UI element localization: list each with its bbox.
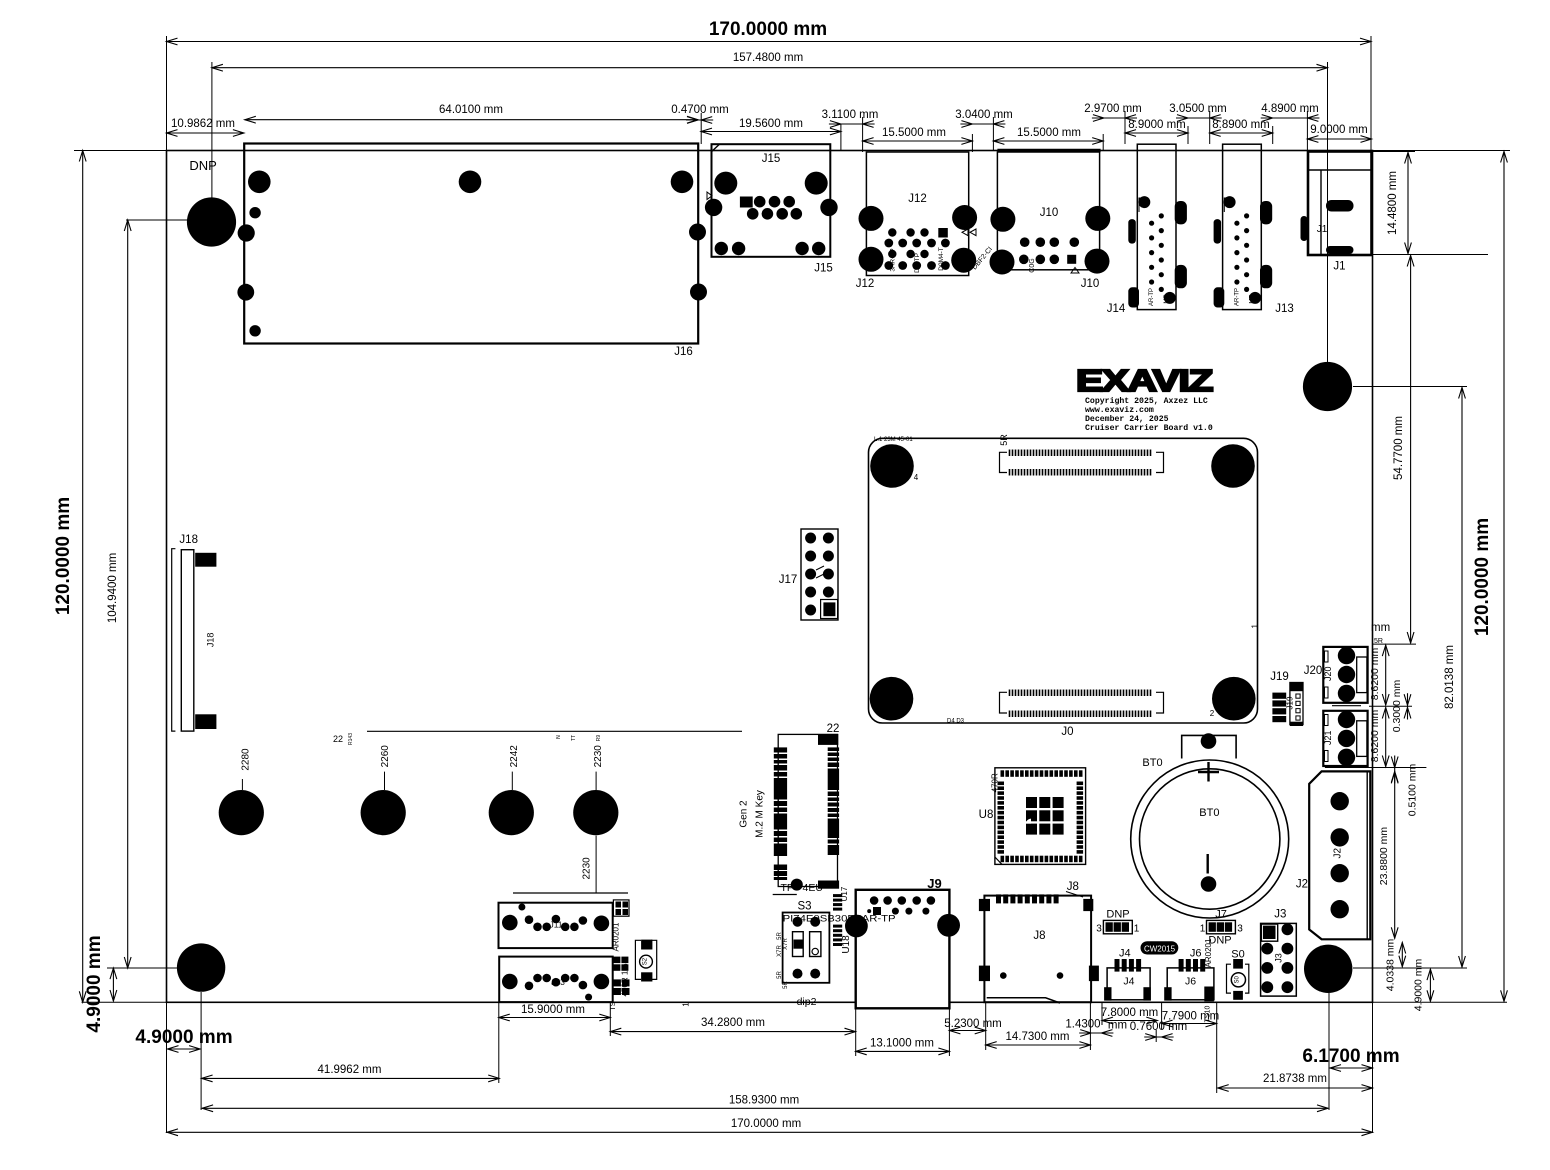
- svg-text:J19: J19: [1286, 696, 1295, 709]
- svg-text:4.9000 mm: 4.9000 mm: [1413, 958, 1425, 1011]
- svg-text:J2: J2: [1333, 847, 1344, 858]
- module J0 mounting hole 3: [870, 677, 914, 721]
- dim 14.4800 mm extension lines: [1373, 151, 1416, 153]
- extension line y=767.5: [1325, 767, 1427, 769]
- svg-text:15.5000 mm: 15.5000 mm: [882, 127, 946, 139]
- dim 14.7300 mm extension lines: [985, 1003, 987, 1050]
- module J0 board-to-board connector top: [1010, 450, 1151, 457]
- module J0 mounting hole 2: [1212, 677, 1256, 721]
- svg-text:3.0500 mm: 3.0500 mm: [1169, 103, 1227, 115]
- connector J8 label leader: [1066, 892, 1083, 898]
- connector J8 top pads: [996, 894, 1001, 903]
- svg-text:120.0000 mm: 120.0000 mm: [53, 497, 74, 615]
- svg-text:J6: J6: [1190, 948, 1202, 960]
- svg-text:J17: J17: [779, 574, 798, 586]
- switch S2 pads: [641, 940, 652, 950]
- svg-text:S0: S0: [1231, 949, 1244, 961]
- svg-text:5R: 5R: [783, 980, 789, 988]
- battery BT0 plus sign: [1198, 771, 1219, 773]
- svg-text:J4: J4: [1123, 976, 1134, 988]
- svg-text:2230: 2230: [582, 857, 593, 880]
- connector J20 lever: [1357, 657, 1367, 693]
- svg-text:X7R: X7R: [777, 944, 783, 956]
- bottom extension lines left: [166, 1002, 168, 1133]
- svg-text:M.2 M Key: M.2 M Key: [755, 790, 766, 838]
- svg-text:1: 1: [682, 1002, 691, 1007]
- svg-text:L.1 23M 45-01: L.1 23M 45-01: [874, 437, 913, 443]
- silk line net row: [367, 730, 742, 732]
- dim 13.1000 mm extension lines: [855, 1008, 857, 1056]
- svg-text:170.0000 mm: 170.0000 mm: [731, 1118, 801, 1130]
- connector J15 pin1 triangle: [707, 192, 712, 200]
- svg-text:5.2300 mm: 5.2300 mm: [944, 1018, 1002, 1030]
- connector J12 outline: [866, 152, 968, 276]
- connector J23 pads: [502, 974, 518, 990]
- mounting hole bottom-left: [177, 943, 225, 991]
- net 2230 dot: [573, 790, 618, 835]
- connector J19 body: [1290, 683, 1303, 692]
- svg-text:U8: U8: [979, 809, 994, 821]
- connector J6 corner pads: [1164, 987, 1171, 1000]
- svg-text:2: 2: [1210, 709, 1215, 718]
- svg-text:U17: U17: [840, 886, 849, 901]
- svg-text:TT: TT: [571, 735, 577, 741]
- svg-text:J4: J4: [1119, 948, 1131, 960]
- mounting hole top-right: [1303, 362, 1352, 411]
- svg-text:www.exaviz.com: www.exaviz.com: [1085, 405, 1154, 415]
- svg-text:104.9400 mm: 104.9400 mm: [107, 553, 119, 623]
- svg-text:mm: mm: [1371, 622, 1390, 634]
- svg-text:J1: J1: [1317, 224, 1328, 235]
- svg-text:N: N: [556, 735, 562, 739]
- svg-text:BT0: BT0: [1142, 757, 1162, 769]
- resistor pads right of J11: [613, 900, 629, 916]
- module J0 board-to-board connector bottom: [1010, 690, 1151, 697]
- svg-text:1: 1: [1134, 924, 1140, 935]
- svg-text:41.9962 mm: 41.9962 mm: [318, 1064, 382, 1076]
- connector J12 pads: [859, 206, 884, 231]
- connector J10 pads: [990, 207, 1015, 232]
- svg-text:170.0000 mm: 170.0000 mm: [709, 19, 827, 40]
- connector J21 notches: [1325, 715, 1329, 726]
- svg-text:4EU: 4EU: [803, 882, 823, 894]
- connector J6 pads top: [1179, 959, 1184, 972]
- svg-text:D0M4-T: D0M4-T: [938, 247, 945, 271]
- svg-text:54.7700 mm: 54.7700 mm: [1393, 416, 1405, 480]
- mounting hole bottom-right: [1304, 945, 1352, 993]
- svg-text:34.2800 mm: 34.2800 mm: [701, 1017, 765, 1029]
- connector 22 M.2 outline: [778, 734, 837, 886]
- svg-text:J19: J19: [1270, 671, 1289, 683]
- svg-text:J7: J7: [1215, 909, 1227, 921]
- svg-text:TP: TP: [1129, 293, 1135, 301]
- svg-text:X7R: X7R: [783, 937, 789, 949]
- connector J2 pads: [1331, 792, 1349, 810]
- svg-text:TS10: TS10: [1205, 1006, 1212, 1023]
- connector J9 outline: [856, 890, 950, 1009]
- connector J4 outline: [1107, 968, 1150, 1000]
- svg-text:22: 22: [827, 723, 840, 735]
- net 2280 dot: [219, 790, 264, 835]
- svg-text:2.9700 mm: 2.9700 mm: [1084, 103, 1142, 115]
- connector J11 pads: [502, 915, 518, 931]
- svg-text:21.8738 mm: 21.8738 mm: [1263, 1073, 1327, 1085]
- connector J8 card slot line: [987, 998, 1060, 1003]
- extension line y=706.5: [1369, 705, 1412, 707]
- svg-text:TP: TP: [1214, 293, 1220, 301]
- connector J21 outline: [1323, 711, 1367, 766]
- svg-text:J15: J15: [814, 263, 833, 275]
- svg-text:13.1000 mm: 13.1000 mm: [870, 1038, 934, 1050]
- svg-text:Gen 2: Gen 2: [739, 800, 750, 828]
- connector J8 corner pads: [979, 899, 990, 911]
- svg-text:3: 3: [1096, 924, 1102, 935]
- svg-text:S2: S2: [642, 957, 648, 965]
- svg-text:J2: J2: [1296, 879, 1308, 891]
- svg-text:7.8000 mm: 7.8000 mm: [1101, 1007, 1159, 1019]
- chip U8 perimeter pads: [1001, 770, 1005, 777]
- svg-text:120.0000 mm: 120.0000 mm: [1472, 518, 1493, 636]
- svg-text:J3: J3: [1274, 909, 1286, 921]
- connector J16 pads: [248, 171, 271, 194]
- svg-text:10.9862 mm: 10.9862 mm: [171, 118, 235, 130]
- svg-text:J12: J12: [908, 193, 927, 205]
- connector J3 outline: [1261, 923, 1297, 996]
- svg-text:December 24, 2025: December 24, 2025: [1085, 414, 1169, 424]
- connector J18 bracket: [172, 549, 176, 731]
- svg-text:0.5100 mm: 0.5100 mm: [1407, 763, 1419, 816]
- jumper J7 outline: [1207, 920, 1236, 933]
- svg-text:J9: J9: [927, 876, 941, 891]
- net 2230 silk line to connector group: [513, 892, 628, 894]
- svg-text:158.9300 mm: 158.9300 mm: [729, 1095, 799, 1107]
- connector J21 pads: [1338, 711, 1355, 728]
- svg-text:AR-TP: AR-TP: [1234, 288, 1240, 306]
- svg-text:J8: J8: [1067, 881, 1079, 893]
- svg-text:2280: 2280: [241, 748, 252, 771]
- extension line y=644 right: [1373, 643, 1417, 645]
- battery BT0 holder tab: [1182, 735, 1236, 758]
- connector J1 pads: [1301, 216, 1308, 241]
- svg-text:J11: J11: [549, 920, 562, 930]
- svg-text:4.0338 mm: 4.0338 mm: [1385, 938, 1397, 991]
- battery BT0 inner circle: [1140, 769, 1280, 909]
- dim 170.0000 mm top extension lines: [166, 36, 168, 151]
- resistor pads U18: [833, 925, 842, 928]
- connector J14 pads: [1128, 219, 1136, 244]
- dim 157.4800 mm extension lines: [211, 62, 213, 199]
- svg-text:1: 1: [1200, 924, 1206, 935]
- svg-text:J1: J1: [1333, 261, 1345, 273]
- dim 120.0000 mm right extension lines: [1373, 150, 1511, 152]
- connector J20 bottom mark: [1332, 705, 1361, 707]
- svg-text:J23: J23: [551, 977, 565, 987]
- svg-text:14.7300 mm: 14.7300 mm: [1006, 1031, 1070, 1043]
- switch S3 sliders: [793, 932, 804, 957]
- dim 104.9400 mm extension lines: [126, 219, 188, 221]
- svg-text:J20: J20: [1304, 665, 1323, 677]
- svg-text:Cruiser Carrier Board v1.0: Cruiser Carrier Board v1.0: [1085, 423, 1213, 433]
- dim 15.9000 mm extension lines: [498, 1003, 500, 1083]
- connector J23 outline: [499, 957, 613, 1003]
- bottom extension lines right: [1216, 1003, 1218, 1093]
- connector J13 pads: [1214, 219, 1222, 244]
- connector J10 top edge bold: [997, 149, 1100, 153]
- connector J21 lever: [1357, 721, 1367, 757]
- chip CW2015: [1141, 941, 1179, 954]
- switch S2 button: [640, 955, 653, 968]
- connector 22 left pad column: [774, 747, 787, 752]
- svg-text:157.4800 mm: 157.4800 mm: [733, 52, 803, 64]
- connector J15 pads: [714, 172, 737, 195]
- resistor pads right of J23: [613, 957, 620, 964]
- module J0 outline: [869, 438, 1258, 723]
- svg-text:2260: 2260: [380, 745, 391, 768]
- svg-text:J8: J8: [1033, 930, 1045, 942]
- switch S3 pads: [793, 917, 803, 927]
- svg-text:Copyright 2025, Axzez LLC: Copyright 2025, Axzez LLC: [1085, 396, 1208, 406]
- svg-text:15.9000 mm: 15.9000 mm: [521, 1004, 585, 1016]
- svg-text:DR-TP: DR-TP: [914, 253, 921, 273]
- connector J1 outline: [1308, 152, 1372, 256]
- svg-text:C0G: C0G: [1029, 258, 1036, 272]
- svg-text:22: 22: [333, 734, 343, 744]
- svg-text:DNP: DNP: [189, 158, 216, 173]
- svg-text:5R: 5R: [777, 970, 783, 978]
- connector J14 outline: [1137, 144, 1176, 309]
- connector J17 outline: [801, 529, 838, 620]
- switch S0 pads and bracket: [1233, 959, 1243, 969]
- svg-text:EXAVIZ: EXAVIZ: [1076, 363, 1213, 398]
- svg-text:8.6200 mm: 8.6200 mm: [1369, 709, 1381, 762]
- net 2242 dot: [489, 790, 534, 835]
- svg-text:1.4300: 1.4300: [1065, 1019, 1100, 1031]
- svg-text:J16: J16: [674, 346, 693, 358]
- svg-text:3: 3: [1237, 924, 1243, 935]
- svg-text:4.8900 mm: 4.8900 mm: [1261, 103, 1319, 115]
- svg-text:dip2: dip2: [797, 996, 817, 1008]
- battery BT0 tab dot: [1201, 733, 1217, 749]
- svg-text:19.5600 mm: 19.5600 mm: [739, 118, 803, 130]
- svg-text:3.1100 mm: 3.1100 mm: [822, 109, 879, 121]
- connector J4 pads top: [1115, 959, 1120, 972]
- connector J8 outline: [984, 896, 1091, 1003]
- dim 120.0000 mm left extension lines: [74, 150, 167, 152]
- connector J20 notches: [1325, 651, 1329, 662]
- svg-text:1: 1: [1250, 624, 1259, 629]
- svg-text:2242: 2242: [509, 745, 520, 768]
- svg-text:AR-TP: AR-TP: [1149, 288, 1155, 306]
- svg-text:J21: J21: [1323, 730, 1333, 745]
- svg-text:R9: R9: [596, 735, 602, 742]
- pads below 470R: [613, 979, 621, 986]
- battery BT0 minus mark: [1206, 854, 1208, 874]
- connector J8 dots: [1000, 972, 1007, 979]
- module J0 mounting hole 1: [1211, 444, 1255, 488]
- svg-text:J12: J12: [856, 278, 875, 290]
- svg-text:64.0100 mm: 64.0100 mm: [439, 104, 503, 116]
- svg-text:9.0000 mm: 9.0000 mm: [1310, 124, 1368, 136]
- jumper DNP outline: [1103, 920, 1132, 933]
- svg-text:S0: S0: [1235, 975, 1241, 983]
- svg-text:4.9000 mm: 4.9000 mm: [84, 935, 105, 1032]
- connector J12 pin1 triangles: [962, 229, 968, 236]
- connector 22 mounting dot: [791, 879, 803, 891]
- svg-text:J13: J13: [1275, 303, 1294, 315]
- svg-text:4: 4: [914, 473, 919, 482]
- svg-text:4.9000 mm: 4.9000 mm: [135, 1027, 232, 1048]
- svg-text:U18: U18: [841, 935, 852, 954]
- connector J3 pads: [1261, 943, 1273, 955]
- connector 22 right pad column: [828, 747, 839, 751]
- connector 22 bottom pads: [774, 865, 787, 871]
- connector J18 pads: [195, 553, 216, 567]
- connector J6 outline: [1167, 968, 1214, 1000]
- connector J9 pads: [870, 896, 879, 905]
- mounting hole DNP top-left: [211, 199, 213, 222]
- switch S2 bracket: [635, 940, 641, 979]
- svg-text:0.4700 mm: 0.4700 mm: [671, 104, 729, 116]
- connector J18 outline: [181, 550, 194, 731]
- module J0 mounting hole 4: [870, 444, 914, 488]
- svg-text:6.1700 mm: 6.1700 mm: [1302, 1046, 1399, 1067]
- svg-text:PI74E0SB30PPAR-TP: PI74E0SB30PPAR-TP: [783, 914, 896, 925]
- svg-text:J3: J3: [1274, 953, 1284, 963]
- svg-text:MR: MR: [1164, 294, 1170, 304]
- connector J15 outline: [712, 144, 831, 257]
- connector J10 outline: [997, 152, 1099, 270]
- svg-text:J6: J6: [1185, 976, 1196, 988]
- svg-text:3AR-TP: 3AR-TP: [890, 248, 897, 271]
- svg-text:J20: J20: [1323, 666, 1333, 681]
- connector J16 outline: [244, 144, 698, 344]
- connector J17 pads: [805, 533, 816, 544]
- svg-text:J18: J18: [205, 633, 215, 648]
- svg-text:15.5000 mm: 15.5000 mm: [1017, 127, 1081, 139]
- connector J20 outline: [1323, 647, 1367, 703]
- resistor pads U17: [833, 894, 842, 897]
- svg-text:23.8800 mm: 23.8800 mm: [1378, 827, 1390, 886]
- connector J13 outline: [1223, 144, 1262, 309]
- connector J3 pin1 pad: [1261, 924, 1277, 941]
- svg-text:CW2015: CW2015: [1144, 945, 1176, 954]
- svg-text:S3: S3: [797, 901, 811, 913]
- svg-text:MR: MR: [1249, 294, 1255, 304]
- svg-text:5R: 5R: [999, 434, 1009, 446]
- svg-text:J14: J14: [1107, 303, 1126, 315]
- connector J4 corner pads: [1104, 987, 1111, 1000]
- svg-text:14.4800 mm: 14.4800 mm: [1387, 171, 1399, 235]
- svg-text:J15: J15: [762, 153, 781, 165]
- connector J2 outline: [1309, 771, 1370, 939]
- svg-text:J10: J10: [1081, 278, 1100, 290]
- svg-text:3.0400 mm: 3.0400 mm: [955, 109, 1013, 121]
- svg-text:0.7600 mm: 0.7600 mm: [1130, 1021, 1188, 1033]
- connector J19 pads: [1272, 693, 1286, 699]
- switch S3 outline: [783, 913, 830, 983]
- battery BT0 outer circle: [1131, 760, 1289, 918]
- svg-text:J18: J18: [179, 534, 198, 546]
- svg-text:D4 D3: D4 D3: [947, 719, 965, 725]
- chip U8 outline: [995, 768, 1086, 865]
- svg-text:AR0201: AR0201: [1204, 938, 1213, 967]
- svg-text:BT0: BT0: [1199, 807, 1219, 819]
- svg-text:2230: 2230: [593, 745, 604, 768]
- board outline: [167, 151, 1373, 1003]
- net 2260 dot: [361, 790, 406, 835]
- svg-text:AR0201: AR0201: [611, 922, 620, 951]
- dim 82.0138 mm extension lines: [1353, 386, 1467, 388]
- connector J20 pads: [1338, 647, 1355, 664]
- svg-text:TS: TS: [610, 1001, 617, 1010]
- svg-text:8.8900 mm: 8.8900 mm: [1212, 119, 1270, 131]
- svg-text:470R: 470R: [991, 773, 1000, 792]
- connector J11 outline: [499, 903, 613, 948]
- svg-text:J10: J10: [1040, 207, 1059, 219]
- connector 22 top-right pad: [818, 734, 838, 745]
- svg-text:J0: J0: [1061, 726, 1073, 738]
- chip U8 center pads: [1026, 797, 1037, 808]
- svg-text:R143: R143: [348, 733, 354, 745]
- svg-text:5R: 5R: [1374, 638, 1383, 645]
- svg-text:DNP: DNP: [1106, 909, 1129, 921]
- svg-text:0.3000 mm: 0.3000 mm: [1391, 679, 1403, 732]
- svg-text:82.0138 mm: 82.0138 mm: [1444, 645, 1456, 709]
- svg-text:8.6200 mm: 8.6200 mm: [1369, 647, 1381, 700]
- battery BT0 bottom dot: [1201, 876, 1217, 892]
